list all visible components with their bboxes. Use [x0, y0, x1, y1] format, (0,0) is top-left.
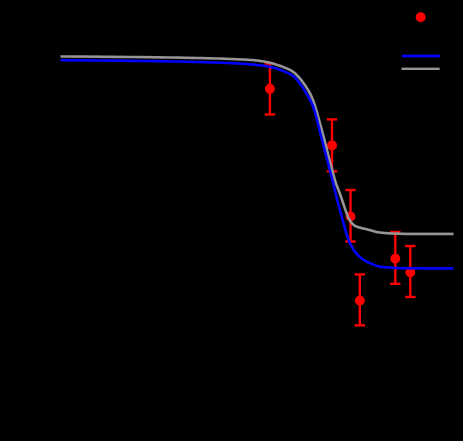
data point P3 with error bar [345, 190, 355, 242]
legend marker: red data point sample [416, 12, 426, 22]
blue model curve [61, 60, 454, 268]
data point P4 with error bar [390, 232, 400, 284]
data point P5 with error bar [405, 246, 415, 297]
data point P6 with error bar [355, 274, 365, 325]
gray model curve [61, 57, 454, 234]
data point P1 with error bar [265, 64, 275, 115]
legend line: gray model sample [402, 68, 440, 70]
data point P2 with error bar [327, 119, 337, 171]
legend line: blue model sample [402, 55, 440, 58]
